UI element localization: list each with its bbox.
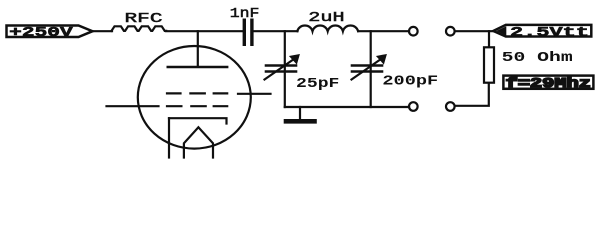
svg-text:50 Ohm: 50 Ohm [502,50,573,66]
svg-text:1nF: 1nF [230,7,260,22]
svg-text:25pF: 25pF [296,77,339,92]
svg-text:+250V: +250V [9,26,74,41]
svg-text:2uH: 2uH [308,11,344,26]
svg-text:f=29Mhz: f=29Mhz [506,76,592,92]
svg-text:2.5Vtt: 2.5Vtt [510,26,589,41]
svg-text:200pF: 200pF [382,75,438,90]
svg-text:RFC: RFC [125,12,163,27]
